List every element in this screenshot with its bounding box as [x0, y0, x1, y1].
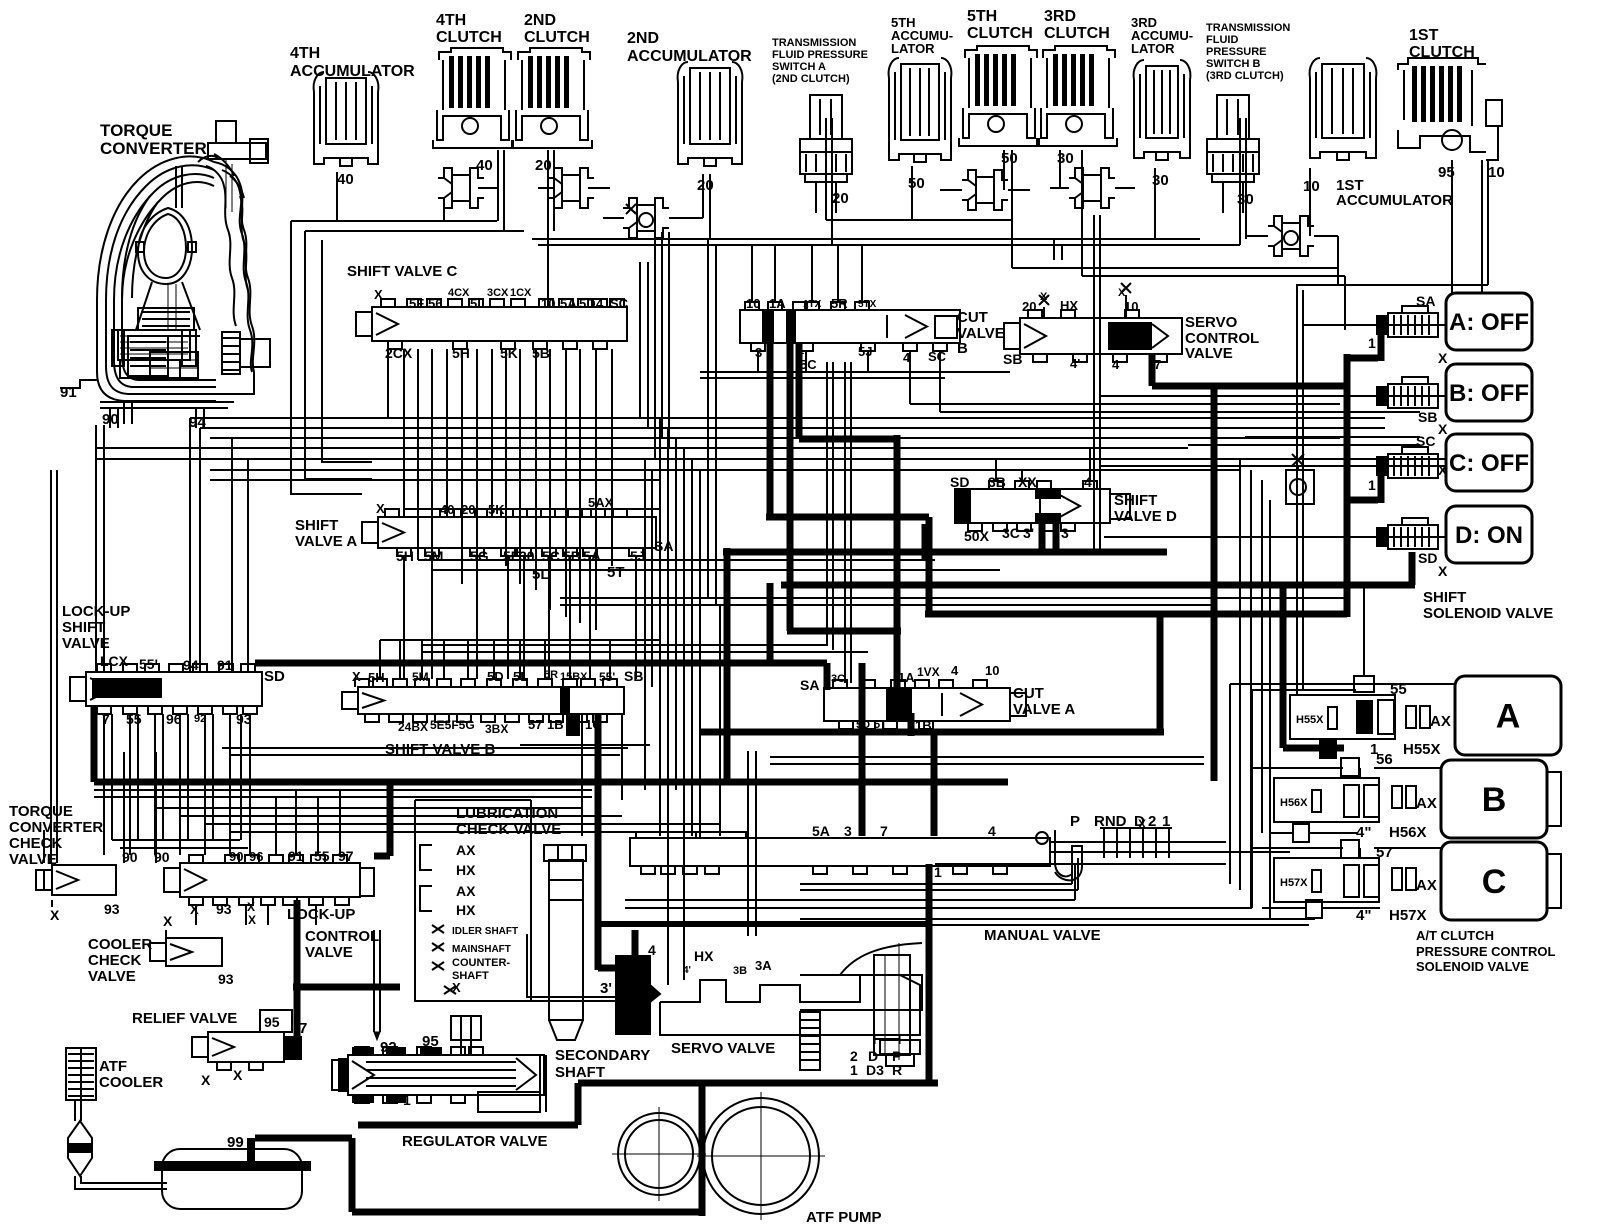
- svg-text:20: 20: [1022, 299, 1036, 314]
- svg-text:90: 90: [229, 849, 243, 864]
- svg-text:TRANSMISSION: TRANSMISSION: [772, 37, 856, 49]
- svg-text:SOLENOID VALVE: SOLENOID VALVE: [1416, 959, 1529, 974]
- svg-text:A/T CLUTCH: A/T CLUTCH: [1416, 928, 1494, 943]
- svg-text:TRANSMISSION: TRANSMISSION: [1206, 22, 1290, 34]
- svg-text:HX: HX: [456, 862, 476, 878]
- svg-text:4: 4: [988, 823, 996, 839]
- svg-text:5C: 5C: [800, 357, 817, 372]
- svg-text:SECONDARY: SECONDARY: [555, 1047, 650, 1064]
- svg-text:PRESSURE CONTROL: PRESSURE CONTROL: [1416, 944, 1555, 959]
- svg-text:55': 55': [599, 670, 615, 684]
- svg-text:B: OFF: B: OFF: [1449, 380, 1529, 407]
- svg-text:10: 10: [985, 663, 999, 678]
- svg-text:COOLER: COOLER: [88, 936, 152, 953]
- svg-text:REGULATOR VALVE: REGULATOR VALVE: [402, 1133, 548, 1150]
- svg-text:CLUTCH: CLUTCH: [436, 29, 502, 46]
- svg-text:VALVE D: VALVE D: [1114, 508, 1177, 525]
- svg-text:1VX: 1VX: [917, 665, 940, 679]
- svg-text:H57X: H57X: [1389, 907, 1427, 924]
- svg-text:5TH: 5TH: [967, 8, 997, 25]
- svg-text:40: 40: [337, 171, 354, 188]
- svg-text:20: 20: [535, 157, 552, 174]
- svg-text:X: X: [247, 900, 255, 914]
- svg-text:LATOR: LATOR: [891, 41, 935, 56]
- svg-text:SD: SD: [264, 668, 285, 685]
- svg-text:AX: AX: [1416, 877, 1437, 894]
- svg-text:3: 3: [844, 823, 852, 839]
- svg-text:5TX: 5TX: [858, 299, 877, 310]
- svg-text:SWITCH A: SWITCH A: [772, 61, 826, 73]
- svg-text:CUT: CUT: [1013, 685, 1044, 702]
- svg-text:4: 4: [951, 663, 959, 678]
- svg-text:SOLENOID VALVE: SOLENOID VALVE: [1423, 605, 1553, 622]
- svg-text:HX: HX: [456, 902, 476, 918]
- svg-text:96: 96: [249, 849, 263, 864]
- svg-text:93: 93: [218, 971, 234, 987]
- svg-text:10: 10: [1303, 178, 1320, 195]
- svg-text:30: 30: [519, 548, 535, 564]
- svg-text:B: B: [957, 340, 968, 357]
- svg-text:R: R: [892, 1062, 902, 1078]
- svg-text:CLUTCH: CLUTCH: [967, 25, 1033, 42]
- svg-text:MAINSHAFT: MAINSHAFT: [452, 944, 511, 955]
- svg-text:SA: SA: [654, 538, 673, 554]
- svg-text:AX: AX: [456, 883, 476, 899]
- svg-text:X: X: [248, 913, 256, 927]
- svg-text:(3RD CLUTCH): (3RD CLUTCH): [1206, 70, 1284, 82]
- svg-text:55: 55: [126, 711, 142, 727]
- svg-text:1A: 1A: [898, 670, 915, 685]
- svg-text:SA: SA: [800, 677, 819, 693]
- svg-text:X: X: [452, 980, 461, 995]
- svg-text:C: OFF: C: OFF: [1449, 450, 1529, 477]
- svg-text:5J: 5J: [630, 548, 646, 564]
- svg-text:2ND: 2ND: [627, 30, 659, 47]
- svg-text:4": 4": [1356, 907, 1371, 924]
- svg-text:VALVE: VALVE: [1185, 345, 1233, 362]
- svg-text:10: 10: [1488, 164, 1505, 181]
- svg-text:92: 92: [380, 1039, 397, 1056]
- svg-text:ATF: ATF: [99, 1058, 127, 1075]
- svg-text:5B: 5B: [532, 345, 550, 361]
- svg-text:1ST: 1ST: [1409, 27, 1439, 44]
- svg-text:D3: D3: [866, 1062, 884, 1078]
- svg-text:X: X: [233, 1067, 243, 1083]
- svg-text:X: X: [50, 907, 60, 923]
- svg-text:X: X: [1438, 350, 1448, 366]
- svg-text:3': 3': [1023, 525, 1034, 541]
- svg-text:4TH: 4TH: [436, 12, 466, 29]
- svg-text:5L: 5L: [532, 566, 550, 583]
- svg-text:VALVE: VALVE: [88, 968, 136, 985]
- svg-text:SB: SB: [1418, 409, 1437, 425]
- svg-text:7: 7: [880, 823, 888, 839]
- svg-text:X: X: [352, 669, 361, 684]
- svg-text:SB: SB: [624, 668, 643, 684]
- svg-text:H56X: H56X: [1280, 797, 1308, 809]
- svg-text:HX: HX: [694, 948, 714, 964]
- svg-text:SD: SD: [950, 474, 969, 490]
- svg-text:SHIFT: SHIFT: [62, 619, 105, 636]
- svg-text:P: P: [1070, 813, 1080, 830]
- svg-text:H55X: H55X: [1403, 741, 1441, 758]
- svg-text:SB: SB: [1003, 351, 1022, 367]
- svg-text:50X: 50X: [964, 528, 990, 544]
- svg-text:4CX: 4CX: [448, 287, 470, 299]
- svg-text:VALVE A: VALVE A: [1013, 701, 1075, 718]
- svg-text:ATF PUMP: ATF PUMP: [806, 1209, 882, 1226]
- svg-text:A: OFF: A: OFF: [1449, 309, 1529, 336]
- svg-text:SHIFT: SHIFT: [1423, 589, 1466, 606]
- svg-text:3: 3: [1061, 525, 1069, 541]
- svg-text:20: 20: [697, 177, 714, 194]
- svg-text:2CX: 2CX: [385, 345, 413, 361]
- svg-text:CLUTCH: CLUTCH: [524, 29, 590, 46]
- svg-text:95: 95: [264, 1014, 280, 1030]
- svg-text:VALVE A: VALVE A: [295, 533, 357, 550]
- svg-text:CLUTCH: CLUTCH: [1044, 25, 1110, 42]
- svg-text:SERVO VALVE: SERVO VALVE: [671, 1040, 775, 1057]
- svg-text:A: A: [1496, 698, 1521, 736]
- svg-text:93: 93: [216, 901, 232, 917]
- svg-text:CONVERTER: CONVERTER: [100, 139, 207, 158]
- svg-text:3A: 3A: [755, 958, 772, 973]
- svg-text:5H: 5H: [452, 345, 470, 361]
- svg-text:FLUID PRESSURE: FLUID PRESSURE: [772, 49, 868, 61]
- svg-text:(2ND CLUTCH): (2ND CLUTCH): [772, 73, 850, 85]
- svg-text:1: 1: [1368, 335, 1376, 351]
- svg-text:SHIFT: SHIFT: [1114, 492, 1157, 509]
- svg-text:15BX: 15BX: [560, 671, 588, 683]
- svg-text:3RD: 3RD: [1044, 8, 1076, 25]
- svg-text:1B: 1B: [547, 717, 564, 732]
- svg-text:IDLER SHAFT: IDLER SHAFT: [452, 926, 518, 937]
- svg-text:X: X: [1438, 462, 1448, 478]
- svg-text:5T: 5T: [607, 564, 625, 581]
- svg-text:B: B: [1482, 781, 1507, 819]
- svg-text:FLUID: FLUID: [1206, 34, 1238, 46]
- svg-text:5E5F5G: 5E5F5G: [430, 718, 475, 732]
- svg-text:3': 3': [600, 980, 612, 997]
- svg-text:3B: 3B: [733, 965, 747, 977]
- svg-text:2ND: 2ND: [524, 12, 556, 29]
- svg-text:SHAFT: SHAFT: [555, 1064, 605, 1081]
- svg-text:5G: 5G: [470, 548, 489, 564]
- svg-text:X: X: [1438, 563, 1448, 579]
- svg-text:5K: 5K: [500, 345, 518, 361]
- svg-text:SERVO: SERVO: [1185, 314, 1238, 331]
- svg-text:X: X: [190, 902, 199, 917]
- svg-text:VALVE: VALVE: [62, 635, 110, 652]
- svg-text:H55X: H55X: [1296, 714, 1324, 726]
- svg-text:3BX: 3BX: [485, 722, 508, 736]
- svg-text:ACCUMULATOR: ACCUMULATOR: [1336, 192, 1453, 209]
- svg-text:3C: 3C: [1002, 525, 1020, 541]
- svg-text:AX: AX: [1430, 713, 1451, 730]
- svg-text:5AX: 5AX: [588, 495, 614, 510]
- svg-text:1A: 1A: [769, 296, 786, 311]
- svg-text:D: ON: D: ON: [1455, 522, 1523, 549]
- svg-text:99: 99: [227, 1134, 244, 1151]
- svg-text:5J: 5J: [858, 344, 872, 359]
- svg-text:20: 20: [832, 190, 849, 207]
- svg-text:TORQUE: TORQUE: [100, 121, 172, 140]
- svg-text:H56X: H56X: [1389, 824, 1427, 841]
- svg-text:X: X: [376, 501, 385, 516]
- svg-text:3CX: 3CX: [487, 287, 509, 299]
- svg-text:5A: 5A: [812, 823, 830, 839]
- svg-text:COUNTER-: COUNTER-: [452, 957, 510, 969]
- svg-text:57: 57: [1376, 844, 1393, 861]
- svg-text:CHECK: CHECK: [88, 952, 142, 969]
- svg-text:SWITCH B: SWITCH B: [1206, 58, 1260, 70]
- svg-text:X: X: [201, 1072, 211, 1088]
- svg-text:VALVE: VALVE: [305, 944, 353, 961]
- svg-text:SA: SA: [1416, 293, 1435, 309]
- svg-text:4': 4': [1070, 356, 1080, 371]
- svg-text:1: 1: [934, 864, 942, 880]
- svg-text:1: 1: [1368, 477, 1376, 493]
- svg-text:CHECK: CHECK: [9, 835, 63, 852]
- svg-text:PRESSURE: PRESSURE: [1206, 46, 1267, 58]
- svg-text:1CX: 1CX: [510, 287, 532, 299]
- svg-text:50: 50: [908, 175, 925, 192]
- svg-text:X: X: [1438, 421, 1448, 437]
- svg-text:56: 56: [1376, 751, 1393, 768]
- svg-text:SHIFT: SHIFT: [295, 517, 338, 534]
- svg-text:5M: 5M: [424, 548, 443, 564]
- svg-text:H57X: H57X: [1280, 877, 1308, 889]
- svg-text:4: 4: [1112, 357, 1120, 372]
- svg-text:CUT: CUT: [957, 309, 988, 326]
- svg-text:91: 91: [60, 384, 77, 401]
- svg-text:1: 1: [403, 1092, 411, 1108]
- svg-text:24BX: 24BX: [398, 720, 428, 734]
- svg-text:4: 4: [648, 942, 656, 958]
- svg-text:COOLER: COOLER: [99, 1074, 163, 1091]
- svg-text:X: X: [163, 913, 173, 929]
- svg-text:SD: SD: [1418, 550, 1437, 566]
- svg-text:57: 57: [528, 717, 542, 732]
- svg-text:CONTROL: CONTROL: [305, 928, 379, 945]
- svg-text:93: 93: [104, 901, 120, 917]
- svg-text:C: C: [1482, 863, 1507, 901]
- svg-text:SC: SC: [928, 349, 947, 364]
- svg-text:TORQUE: TORQUE: [9, 803, 73, 820]
- svg-text:VALVE: VALVE: [9, 851, 57, 868]
- svg-text:5H: 5H: [368, 670, 385, 685]
- svg-text:MANUAL VALVE: MANUAL VALVE: [984, 927, 1101, 944]
- svg-text:AX: AX: [1416, 795, 1437, 812]
- svg-text:1: 1: [850, 1062, 858, 1078]
- svg-text:5A: 5A: [583, 548, 601, 564]
- svg-text:SHIFT VALVE C: SHIFT VALVE C: [347, 263, 457, 280]
- svg-text:RELIEF VALVE: RELIEF VALVE: [132, 1010, 237, 1027]
- svg-text:4TH: 4TH: [290, 45, 320, 62]
- svg-text:LATOR: LATOR: [1131, 41, 1175, 56]
- svg-text:4": 4": [1356, 824, 1371, 841]
- svg-text:AX: AX: [456, 842, 476, 858]
- svg-text:1: 1: [1370, 741, 1378, 758]
- svg-text:SC: SC: [1416, 433, 1435, 449]
